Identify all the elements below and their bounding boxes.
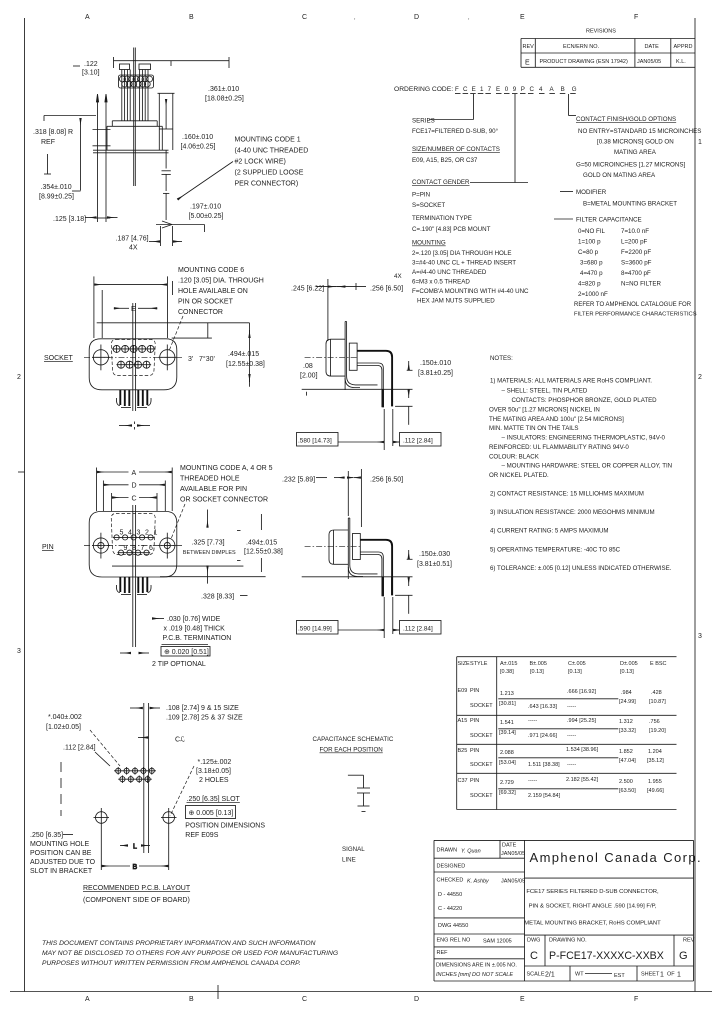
svg-text:THIS DOCUMENT CONTAINS PROPRIE: THIS DOCUMENT CONTAINS PROPRIETARY INFOR…: [42, 940, 316, 947]
svg-text:ENG REL NO: ENG REL NO: [437, 938, 471, 944]
svg-text:REV: REV: [683, 938, 695, 944]
svg-text:FILTER PERFORMANCE CHARACTERIS: FILTER PERFORMANCE CHARACTERISTICS: [574, 312, 697, 318]
baseline and tick bottom right: [156, 221, 205, 232]
svg-text:DWG 44550: DWG 44550: [438, 923, 468, 929]
svg-text:[8.99±0.25]: [8.99±0.25]: [39, 194, 74, 201]
svg-text:SIZE/NUMBER OF CONTACTS: SIZE/NUMBER OF CONTACTS: [412, 146, 500, 153]
svg-text:5: 5: [120, 530, 124, 537]
left rear pins: [93, 94, 111, 222]
svg-text:G: G: [679, 950, 688, 962]
svg-text:[3.18±0.05]: [3.18±0.05]: [196, 768, 231, 775]
mounting hole left: [92, 345, 110, 371]
dimension .112 basic pin: [393, 621, 441, 635]
svg-text:.125 [3.18]: .125 [3.18]: [53, 216, 86, 223]
svg-text:2: 2: [17, 374, 21, 381]
svg-text:– MOUNTING HARDWARE: STEEL OR: – MOUNTING HARDWARE: STEEL OR COPPER ALL…: [502, 463, 673, 470]
svg-text:9: 9: [124, 545, 128, 552]
pin PCB tails: [120, 577, 147, 593]
dim extension lines above: [94, 276, 173, 338]
svg-text:SOCKET: SOCKET: [470, 703, 493, 709]
svg-text:.112 [2.84]: .112 [2.84]: [403, 438, 433, 445]
svg-text:2=1000 nF: 2=1000 nF: [578, 291, 608, 298]
reference line left: [44, 116, 96, 191]
svg-text:NOTES:: NOTES:: [490, 355, 513, 362]
dimension .361 overall line: [114, 57, 244, 103]
svg-text:HOLE AVAILABLE ON: HOLE AVAILABLE ON: [178, 288, 248, 295]
svg-text:5) OPERATING TEMPERATURE: -40C: 5) OPERATING TEMPERATURE: -40C TO 85C: [490, 547, 621, 554]
svg-text:3=680 p: 3=680 p: [580, 260, 603, 267]
svg-text:[10.87]: [10.87]: [649, 699, 666, 705]
svg-text:THE MATING AREA AND 100u" [2.5: THE MATING AREA AND 100u" [2.54 MICRONS]: [489, 416, 624, 423]
svg-text:C37: C37: [458, 778, 468, 784]
svg-text:FCE17=FILTERED D-SUB, 90°: FCE17=FILTERED D-SUB, 90°: [412, 128, 499, 135]
dimension .187 4X: [116, 226, 183, 252]
svg-text:B=METAL MOUNTING BRACKET: B=METAL MOUNTING BRACKET: [583, 201, 677, 208]
svg-text:.256 [6.50]: .256 [6.50]: [370, 286, 403, 293]
svg-text:.150±.010: .150±.010: [420, 360, 451, 367]
svg-text:-----: -----: [567, 733, 576, 739]
svg-text:ORDERING CODE:: ORDERING CODE:: [394, 86, 453, 93]
svg-text:1.511 [38.38]: 1.511 [38.38]: [528, 762, 560, 768]
pad dia note: [46, 714, 120, 766]
svg-text:PRODUCT DRAWING (ESN 17942): PRODUCT DRAWING (ESN 17942): [540, 59, 628, 65]
svg-text:6=M3 x 0.5 THREAD: 6=M3 x 0.5 THREAD: [412, 279, 470, 286]
svg-text:RECOMMENDED P.C.B. LAYOUT: RECOMMENDED P.C.B. LAYOUT: [83, 885, 191, 892]
svg-text:– SHELL: STEEL, TIN PLATED: – SHELL: STEEL, TIN PLATED: [502, 388, 588, 395]
svg-text:JAN05/05: JAN05/05: [501, 851, 525, 857]
dim line C: [112, 495, 157, 502]
tail pitch dim: [119, 422, 150, 430]
svg-text:B: B: [133, 864, 138, 871]
dimension .122: [73, 61, 100, 77]
svg-text:2.500: 2.500: [619, 779, 633, 785]
svg-text:WT: WT: [575, 972, 584, 978]
svg-text:PURPOSES WITHOUT WRITTEN PERMI: PURPOSES WITHOUT WRITTEN PERMISSION FROM…: [42, 960, 301, 967]
svg-text:SIGNAL: SIGNAL: [342, 846, 365, 853]
svg-text:POSITION DIMENSIONS: POSITION DIMENSIONS: [185, 823, 265, 830]
svg-text:[19.20]: [19.20]: [649, 728, 666, 734]
ordering code left column: [394, 118, 529, 305]
svg-text:JAN05/05: JAN05/05: [501, 879, 525, 885]
dimension .125: [53, 216, 118, 223]
svg-text:1=100 p: 1=100 p: [578, 239, 601, 246]
svg-text:D±.005: D±.005: [620, 661, 638, 667]
svg-text:[63.50]: [63.50]: [619, 788, 636, 794]
svg-text:.354±.010: .354±.010: [41, 184, 72, 191]
svg-text:OVER 50u" [1.27 MICRONS] NICKE: OVER 50u" [1.27 MICRONS] NICKEL IN: [489, 407, 600, 414]
svg-text:.250 [6.35]: .250 [6.35]: [30, 832, 63, 839]
svg-text:A: A: [85, 996, 90, 1003]
svg-text:[39.14]: [39.14]: [499, 730, 516, 736]
svg-text:THREADED HOLE: THREADED HOLE: [180, 476, 240, 483]
svg-text:.187 [4.76]: .187 [4.76]: [116, 236, 149, 243]
svg-text:.984: .984: [621, 690, 632, 696]
revisions table: [521, 29, 695, 68]
mounting hole slot note: [30, 832, 96, 875]
svg-text:FCE17: FCE17: [455, 86, 495, 93]
svg-text:SIZE: SIZE: [458, 661, 471, 667]
centerline: [305, 357, 359, 359]
svg-text:EST: EST: [614, 973, 625, 979]
svg-text:DRAWING NO.: DRAWING NO.: [549, 938, 587, 944]
svg-text:L=200 pF: L=200 pF: [621, 239, 648, 246]
svg-text:[0.38]: [0.38]: [500, 669, 514, 675]
svg-text:.580 [14.73]: .580 [14.73]: [298, 438, 332, 445]
svg-text:F=COMB'A MOUNTING WITH #4-40 U: F=COMB'A MOUNTING WITH #4-40 UNC: [412, 288, 529, 295]
top tail row: [357, 351, 392, 407]
svg-text:.971 [24.66]: .971 [24.66]: [528, 733, 558, 739]
svg-text:CAPACITANCE SCHEMATIC: CAPACITANCE SCHEMATIC: [313, 736, 394, 743]
svg-text:1: 1: [154, 530, 158, 537]
board edge dashes: [60, 762, 62, 816]
svg-text:DESIGNED: DESIGNED: [437, 864, 466, 870]
svg-text:C=80 p: C=80 p: [578, 249, 599, 256]
svg-text:Cℒ: Cℒ: [175, 736, 185, 744]
dim extension lines above: [97, 468, 173, 512]
svg-text:.328 [8.33]: .328 [8.33]: [201, 594, 234, 601]
mounting hole left: [94, 808, 110, 827]
svg-text:HEX JAM NUTS SUPPLIED: HEX JAM NUTS SUPPLIED: [417, 298, 495, 305]
svg-text:PIN: PIN: [470, 778, 479, 784]
svg-text:B25: B25: [458, 748, 468, 754]
face outline: [89, 512, 177, 578]
svg-text:[4.06±0.25]: [4.06±0.25]: [181, 144, 216, 151]
svg-text:OR NICKEL PLATED.: OR NICKEL PLATED.: [489, 472, 549, 479]
svg-text:1.852: 1.852: [619, 749, 633, 755]
svg-text:CONNECTOR: CONNECTOR: [178, 309, 223, 316]
svg-text:.197±.010: .197±.010: [190, 204, 221, 211]
zone letters top: [85, 14, 638, 21]
svg-text:[53.04]: [53.04]: [499, 760, 516, 766]
svg-text:[0.13]: [0.13]: [530, 669, 544, 675]
svg-text:SHEET: SHEET: [641, 972, 660, 978]
svg-text:4) CURRENT RATING: 5 AMPS MAXI: 4) CURRENT RATING: 5 AMPS MAXIMUM: [490, 528, 609, 535]
svg-text:2 HOLES: 2 HOLES: [199, 777, 229, 784]
svg-text:7=10.0 nF: 7=10.0 nF: [621, 228, 649, 235]
mounting code A note: [171, 465, 273, 539]
svg-text:JAN05/05: JAN05/05: [637, 59, 661, 65]
socket front view: [44, 267, 265, 430]
pads row 1: [114, 767, 156, 775]
svg-text:[35.12]: [35.12]: [647, 758, 664, 764]
svg-text:DATE: DATE: [645, 44, 660, 50]
svg-text:2.159 [54.84]: 2.159 [54.84]: [528, 793, 561, 799]
top view: connector rear view with PCB tails: [33, 48, 308, 252]
svg-text:[30.81]: [30.81]: [499, 701, 516, 707]
svg-text:F: F: [634, 996, 638, 1003]
svg-text:E09PC: E09PC: [496, 86, 539, 93]
svg-text:[12.55±0.38]: [12.55±0.38]: [244, 549, 283, 556]
svg-text:0=NO FIL: 0=NO FIL: [578, 228, 606, 235]
svg-text:MOUNTING CODE 6: MOUNTING CODE 6: [178, 267, 244, 274]
insulator block: [349, 343, 357, 370]
svg-text:S=SOCKET: S=SOCKET: [412, 202, 445, 209]
bracket foot: [347, 376, 378, 385]
bracket plate: [345, 322, 347, 391]
mounting code 1 note: [235, 137, 309, 188]
svg-text:FCE17 SERIES FILTERED D-SUB CO: FCE17 SERIES FILTERED D-SUB CONNECTOR,: [526, 889, 659, 895]
hole dia note: [170, 759, 231, 816]
svg-text:7°30': 7°30': [199, 355, 215, 363]
horizontal centerline: [84, 545, 182, 547]
dim below board: [395, 595, 412, 614]
centerline (jackscrew axis): [133, 48, 135, 187]
svg-text:SCALE: SCALE: [527, 972, 545, 978]
svg-text:OF: OF: [667, 972, 675, 978]
svg-text:3: 3: [137, 530, 141, 537]
svg-text:– INSULATORS: ENGINEERING THER: – INSULATORS: ENGINEERING THERMOPLASTIC,…: [502, 435, 666, 442]
dimension .494 right: [97, 323, 265, 387]
svg-text:1.955: 1.955: [648, 779, 662, 785]
svg-text:.108 [2.74] 9 & 15 SIZE: .108 [2.74] 9 & 15 SIZE: [166, 705, 239, 712]
dimension .245: [291, 283, 403, 293]
capacitance schematic: [313, 736, 394, 864]
drawing title: [524, 889, 661, 927]
svg-text:.112 [2.84]: .112 [2.84]: [403, 626, 433, 633]
svg-text:C: C: [302, 996, 307, 1003]
svg-text:ADJUSTED DUE TO: ADJUSTED DUE TO: [30, 859, 96, 866]
svg-text:S=3600 pF: S=3600 pF: [621, 260, 652, 267]
svg-text:1: 1: [698, 139, 702, 146]
top tail row: [360, 540, 392, 596]
svg-text:OR SOCKET CONNECTOR: OR SOCKET CONNECTOR: [180, 497, 268, 504]
svg-text:MATING AREA: MATING AREA: [614, 149, 657, 156]
svg-text:E: E: [520, 14, 525, 21]
svg-text:A: A: [85, 14, 90, 21]
socket side view: [291, 279, 453, 450]
svg-text:.318 [8.08] R: .318 [8.08] R: [33, 129, 73, 136]
pads row 2: [118, 775, 152, 783]
svg-text:F: F: [634, 14, 638, 21]
svg-text:REVISIONS: REVISIONS: [586, 29, 616, 35]
svg-text:E: E: [525, 60, 530, 67]
svg-text:P=PIN: P=PIN: [412, 192, 430, 199]
svg-text:3: 3: [17, 648, 21, 655]
svg-text:REF: REF: [41, 139, 55, 146]
svg-text:SOCKET: SOCKET: [44, 355, 74, 362]
svg-text:PIN OR SOCKET: PIN OR SOCKET: [178, 299, 234, 306]
mounting hole right: [159, 533, 177, 559]
svg-text:P.C.B. TERMINATION: P.C.B. TERMINATION: [163, 635, 232, 642]
svg-text:E: E: [520, 996, 525, 1003]
svg-text:2 TIP OPTIONAL: 2 TIP OPTIONAL: [152, 661, 206, 668]
svg-text:METAL MOUNTING BRACKET, RoHS C: METAL MOUNTING BRACKET, RoHS COMPLIANT: [524, 921, 661, 927]
filter plate contacts texture: [119, 75, 154, 88]
svg-text:MOUNTING HOLE: MOUNTING HOLE: [30, 841, 89, 848]
svg-text:1: 1: [660, 972, 664, 979]
svg-text:.325 [7.73]: .325 [7.73]: [192, 540, 225, 547]
position tolerance frame: [185, 796, 265, 839]
svg-text:D: D: [414, 996, 419, 1003]
horizontal centerline: [84, 356, 182, 358]
svg-text:1.213: 1.213: [500, 691, 514, 697]
svg-text:AVAILABLE FOR PIN: AVAILABLE FOR PIN: [180, 486, 247, 493]
svg-text:SOCKET: SOCKET: [470, 733, 493, 739]
svg-text:.232 [5.89]: .232 [5.89]: [282, 477, 315, 484]
svg-text:3=#4-40 UNC CL + THREAD INSERT: 3=#4-40 UNC CL + THREAD INSERT: [412, 260, 516, 267]
svg-text:INCHES [mm] DO NOT SCALE: INCHES [mm] DO NOT SCALE: [436, 972, 513, 978]
svg-text:-----: -----: [567, 762, 576, 768]
vertical centerline pair: [132, 303, 134, 411]
svg-text:PIN & SOCKET, RIGHT ANGLE .590: PIN & SOCKET, RIGHT ANGLE .590 [14.99] F…: [529, 904, 657, 910]
svg-text:STYLE: STYLE: [470, 661, 488, 667]
svg-text:C - 44220: C - 44220: [438, 906, 462, 912]
dimension .150 pin: [407, 550, 452, 586]
svg-text:MAY NOT BE DISCLOSED TO OTHERS: MAY NOT BE DISCLOSED TO OTHERS FOR ANY P…: [42, 950, 338, 957]
svg-text:P-FCE17-XXXXC-XXBX: P-FCE17-XXXXC-XXBX: [549, 950, 664, 962]
svg-text:PIN: PIN: [42, 544, 54, 551]
shell size table: [457, 657, 677, 810]
zone letters bottom: [85, 996, 638, 1003]
signal wire: [348, 774, 364, 776]
recommended PCB layout: [30, 703, 265, 904]
svg-text:4=820 p: 4=820 p: [578, 281, 601, 288]
centerline: [305, 546, 362, 548]
svg-text:MIN. MATTE TIN ON THE TAILS: MIN. MATTE TIN ON THE TAILS: [489, 425, 579, 432]
dim B between holes: [101, 827, 168, 871]
dimension .318 REF: [33, 129, 73, 146]
second tail row: [360, 552, 383, 596]
svg-text:(4-40 UNC THREADED: (4-40 UNC THREADED: [235, 148, 309, 155]
second tail row: [357, 363, 383, 407]
PCB termination note: [120, 616, 231, 668]
jackscrew standoff: [158, 93, 175, 150]
svg-text:E09, A15, B25, OR C37: E09, A15, B25, OR C37: [412, 157, 478, 164]
dimension .160: [181, 134, 216, 151]
ground: [358, 806, 370, 812]
ordering code right column: [554, 116, 701, 318]
svg-text:PER CONNECTOR): PER CONNECTOR): [235, 181, 299, 188]
svg-text:6) TOLERANCE: ±.005 [0.12] UNL: 6) TOLERANCE: ±.005 [0.12] UNLESS INDICA…: [490, 565, 672, 572]
svg-text:4: 4: [128, 530, 132, 537]
svg-text:PIN: PIN: [470, 748, 479, 754]
svg-text:[2.00]: [2.00]: [300, 373, 318, 380]
bracket flange lines: [93, 150, 169, 153]
svg-text:B: B: [189, 996, 194, 1003]
dimension .079: [300, 363, 318, 380]
svg-text:.08: .08: [303, 363, 313, 370]
dimension .354: [39, 184, 81, 201]
svg-text:A15: A15: [458, 718, 468, 724]
svg-text:[49.66]: [49.66]: [647, 788, 664, 794]
svg-text:4X: 4X: [394, 273, 402, 280]
svg-text:C: C: [302, 14, 307, 21]
pin side view: [282, 469, 452, 638]
svg-text:-----: -----: [567, 704, 576, 710]
contact tails group left: [120, 64, 131, 121]
svg-text:.122: .122: [84, 61, 98, 68]
svg-text:B: B: [189, 14, 194, 21]
insulator body steps: [107, 121, 162, 150]
svg-text:1.534 [38.96]: 1.534 [38.96]: [566, 747, 599, 753]
dim line D: [104, 483, 165, 490]
svg-text:.250 [6.35] SLOT: .250 [6.35] SLOT: [187, 796, 241, 803]
dimension .108 column: [130, 703, 243, 853]
svg-text:G=50 MICROINCHES [1.27 MICRONS: G=50 MICROINCHES [1.27 MICRONS]: [576, 162, 685, 169]
dimension .590 basic: [297, 597, 393, 638]
mounting hole right: [161, 808, 177, 827]
zone numbers margins: [17, 139, 702, 655]
svg-text:[18.08±0.25]: [18.08±0.25]: [205, 96, 244, 103]
svg-text:A: A: [132, 470, 137, 477]
svg-text:*.040±.002: *.040±.002: [48, 714, 82, 721]
svg-text:C: C: [132, 495, 137, 502]
svg-text:1) MATERIALS: ALL MATERIALS AR: 1) MATERIALS: ALL MATERIALS ARE RoHS COM…: [490, 378, 652, 385]
mounting hardware capacitor stack symbol: [162, 150, 171, 220]
dimension .112 row pitch: [63, 745, 110, 767]
svg-text:.109 [2.78] 25 & 37 SIZE: .109 [2.78] 25 & 37 SIZE: [166, 715, 243, 722]
dim line E: [114, 306, 157, 313]
bottom edge extension lines: [112, 565, 243, 567]
svg-text:FILTER CAPACITANCE: FILTER CAPACITANCE: [576, 217, 642, 224]
svg-text:1.312: 1.312: [619, 719, 633, 725]
svg-text:.756: .756: [649, 719, 660, 725]
svg-text:[3.10]: [3.10]: [82, 70, 100, 77]
svg-text:#2 LOCK WIRE): #2 LOCK WIRE): [235, 159, 286, 166]
svg-text:D - 44550: D - 44550: [438, 892, 462, 898]
svg-text:.590 [14.99]: .590 [14.99]: [298, 626, 332, 633]
svg-text:1.541: 1.541: [500, 720, 514, 726]
svg-text:L: L: [133, 844, 137, 851]
svg-text:.494±.015: .494±.015: [228, 351, 259, 358]
svg-text:[69.32]: [69.32]: [499, 790, 516, 796]
notes block: [489, 355, 672, 572]
leader arrow to jackscrew: [178, 162, 234, 200]
tails below board: [382, 389, 384, 407]
svg-text:CHECKED: CHECKED: [437, 878, 464, 884]
layout title: [83, 885, 191, 904]
svg-text:8=4700 pF: 8=4700 pF: [621, 270, 651, 277]
svg-text:TERMINATION TYPE: TERMINATION TYPE: [412, 215, 472, 222]
svg-text:DRAWN: DRAWN: [437, 848, 458, 854]
svg-text:CONTACTS: PHOSPHOR BRONZE, GOL: CONTACTS: PHOSPHOR BRONZE, GOLD PLATED: [512, 397, 658, 404]
svg-text:2) CONTACT RESISTANCE: 15 MILL: 2) CONTACT RESISTANCE: 15 MILLIOHMS MAXI…: [490, 491, 644, 498]
svg-text:4X: 4X: [129, 245, 138, 252]
svg-text:[0.13]: [0.13]: [620, 669, 634, 675]
pin front view: [42, 465, 283, 668]
svg-text:⊕ 0.020 [0.51]: ⊕ 0.020 [0.51]: [164, 649, 209, 656]
svg-text:.256 [6.50]: .256 [6.50]: [370, 477, 403, 484]
svg-text:APPRD: APPRD: [674, 44, 693, 50]
mounting code 6 note: [169, 267, 264, 351]
svg-text:Y. Quan: Y. Quan: [461, 849, 481, 855]
svg-text:K.L.: K.L.: [676, 59, 686, 65]
svg-text:.112 [2.84]: .112 [2.84]: [63, 745, 96, 752]
svg-text:4ABG: 4ABG: [539, 86, 584, 93]
svg-text:[0.38 MICRONS] GOLD ON: [0.38 MICRONS] GOLD ON: [597, 139, 674, 146]
svg-text:A=#4-40 UNC THREADED: A=#4-40 UNC THREADED: [412, 269, 487, 276]
svg-text:.994 [25.25]: .994 [25.25]: [567, 718, 597, 724]
capacitor C1: [357, 775, 370, 806]
svg-text:Amphenol Canada Corp.: Amphenol Canada Corp.: [530, 850, 703, 865]
svg-text:PIN: PIN: [470, 688, 479, 694]
svg-text:DIMENSIONS ARE IN ±.005 NO.: DIMENSIONS ARE IN ±.005 NO.: [436, 963, 517, 969]
svg-text:(COMPONENT SIDE OF BOARD): (COMPONENT SIDE OF BOARD): [83, 897, 190, 904]
svg-text:MOUNTING: MOUNTING: [412, 240, 446, 247]
svg-text:.361±.010: .361±.010: [208, 86, 239, 93]
svg-text:C=.190" [4.83] PCB MOUNT: C=.190" [4.83] PCB MOUNT: [412, 226, 491, 233]
vertical centerline pair: [132, 505, 134, 647]
svg-text:7: 7: [141, 545, 145, 552]
dimension .580 basic: [297, 409, 393, 450]
svg-text:.428: .428: [651, 690, 662, 696]
svg-text:.030 [0.76] WIDE: .030 [0.76] WIDE: [167, 616, 221, 623]
socket contacts row 1: [112, 345, 155, 353]
board line: [302, 388, 413, 390]
svg-text:ECN/ERN NO.: ECN/ERN NO.: [563, 44, 600, 50]
svg-text:x .019 [0.48] THICK: x .019 [0.48] THICK: [164, 626, 226, 633]
shell body side: [329, 530, 348, 564]
